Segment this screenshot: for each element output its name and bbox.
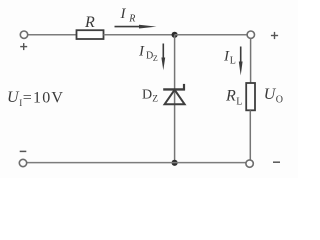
label R <box>84 14 95 31</box>
polarity - (input) <box>20 150 27 152</box>
svg-text:Z: Z <box>153 54 158 63</box>
wire: top rail right segment (node A to output terminal) <box>175 34 247 36</box>
wire: output branch upper (terminal to RL) <box>250 38 252 83</box>
current arrow I_DZ <box>161 44 165 71</box>
svg-text:I: I <box>138 44 145 60</box>
wire: top rail middle segment (R to node A) <box>104 34 175 36</box>
label UO <box>264 86 283 106</box>
svg-text:L: L <box>230 56 236 67</box>
polarity + (output) <box>271 32 278 39</box>
terminal: output + (top right) <box>247 31 254 38</box>
svg-text:D: D <box>142 88 152 103</box>
polarity + (input) <box>20 43 27 50</box>
svg-text:I: I <box>120 6 127 22</box>
current arrow I_R <box>115 25 157 29</box>
current arrow I_L <box>239 47 243 76</box>
svg-text:U: U <box>7 89 20 106</box>
label DZ <box>142 88 158 105</box>
label I_L <box>223 48 236 66</box>
svg-text:Z: Z <box>152 95 158 105</box>
svg-text:R: R <box>128 13 135 24</box>
polarity - (output) <box>273 161 280 163</box>
node B (bottom junction dot) <box>172 160 178 166</box>
svg-text:=10V: =10V <box>23 89 64 106</box>
zener diode DZ: cathode bar with tick <box>163 84 185 91</box>
node A (top junction dot) <box>172 32 178 38</box>
label I_DZ <box>138 44 158 64</box>
label I_R <box>120 6 136 25</box>
resistor R <box>77 30 104 39</box>
svg-text:R: R <box>225 88 236 105</box>
wire: top rail left segment (terminal to R) <box>28 34 77 36</box>
wire: output branch lower (RL to terminal) <box>249 110 251 160</box>
terminal: output - (bottom right) <box>246 160 253 167</box>
svg-text:O: O <box>276 95 283 106</box>
svg-text:R: R <box>84 14 95 31</box>
load resistor RL <box>246 83 255 110</box>
value label UI=10V <box>7 89 64 108</box>
terminal: input + (top left) <box>20 31 27 38</box>
wire: bottom rail <box>27 162 246 164</box>
svg-text:L: L <box>236 97 242 108</box>
label RL <box>225 88 242 108</box>
wire: zener branch vertical <box>174 35 176 163</box>
zener diode DZ: anode triangle <box>165 90 185 104</box>
terminal: input - (bottom left) <box>19 159 26 166</box>
